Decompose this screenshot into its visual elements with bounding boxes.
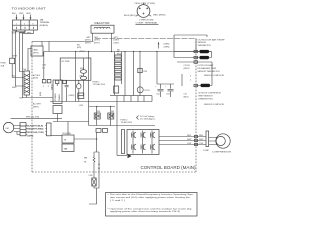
transistor Q4	[132, 144, 137, 150]
svg-text:(GRY): (GRY)	[114, 40, 120, 42]
svg-text:GRY: GRY	[86, 37, 91, 39]
svg-text:SENSOR THERMISTOR: SENSOR THERMISTOR	[198, 71, 221, 73]
svg-text:AC BLK: AC BLK	[33, 74, 41, 77]
svg-text:(GRY): (GRY)	[94, 43, 100, 45]
notes box	[106, 193, 198, 217]
svg-text:DC 310V Approx.: DC 310V Approx.	[140, 118, 156, 121]
pin bottom	[143, 13, 145, 15]
wires connector to board	[26, 126, 47, 135]
svg-text:WHT: WHT	[12, 87, 17, 89]
svg-text:(GRN): (GRN)	[27, 135, 33, 137]
transistor Q3	[151, 132, 156, 138]
wire choke to board	[27, 97, 53, 99]
wire rail y125	[89, 125, 155, 127]
resistor R23	[138, 68, 142, 72]
wire TR feed	[67, 122, 69, 136]
TR box 1	[62, 135, 74, 143]
svg-text:EXCHANGER TEMP: EXCHANGER TEMP	[198, 67, 217, 70]
svg-text:COMP. TERMINAL: COMP. TERMINAL	[136, 22, 159, 25]
svg-text:YLW: YLW	[187, 143, 191, 145]
wire reactor left leg	[92, 33, 94, 41]
svg-text:TAB: TAB	[40, 19, 44, 22]
coil winding ladder	[115, 52, 122, 96]
wire cn2 drop	[43, 52, 45, 80]
svg-text:WHT: WHT	[187, 139, 192, 141]
svg-text:RED: RED	[199, 135, 204, 137]
svg-text:TAB: TAB	[64, 147, 68, 150]
oval component relay coil	[78, 80, 80, 101]
choke coil L1 hatched	[24, 71, 30, 95]
wire output U	[159, 136, 206, 138]
capacitor C53	[165, 84, 174, 97]
svg-text:T6.3A L250V: T6.3A L250V	[121, 121, 133, 124]
wire top right corner	[195, 39, 197, 52]
fan connector housing	[20, 123, 26, 136]
pin left	[139, 7, 141, 9]
svg-text:DATA: DATA	[33, 49, 39, 52]
wire L from terminal 1	[12, 30, 16, 58]
svg-text:TEMP SENSOR: TEMP SENSOR	[198, 95, 213, 97]
varistor branch 2	[98, 152, 100, 186]
svg-text:WHT/YLW (YLW): WHT/YLW (YLW)	[27, 132, 44, 134]
svg-text:RED (RED): RED (RED)	[153, 15, 166, 17]
sensor A loop top wire	[174, 35, 207, 37]
svg-text:COMPRESSOR: COMPRESSOR	[212, 151, 232, 153]
wire long vertical B	[88, 52, 90, 126]
wire join varistors	[89, 186, 99, 205]
compressor motor M	[216, 134, 230, 148]
wire output W	[159, 144, 206, 146]
wire fan return	[51, 135, 62, 137]
control board dashed outline left	[31, 42, 33, 173]
wire TR out	[74, 138, 97, 140]
wire arrow 2	[23, 15, 25, 20]
compressor terminal bar	[206, 131, 209, 147]
svg-text:(RD): (RD)	[77, 47, 82, 49]
TR box 2	[62, 144, 74, 152]
fuse F main	[10, 58, 15, 64]
connector tick A2	[194, 56, 198, 58]
svg-text:GRY: GRY	[94, 37, 99, 39]
thermistor blob A2	[200, 56, 210, 59]
connector tick A1	[194, 50, 198, 52]
resistor under coil	[114, 86, 119, 93]
wire output V	[159, 140, 206, 142]
svg-text:AC WHT: AC WHT	[33, 103, 42, 106]
wire rail top	[32, 41, 94, 43]
fan motor FM	[3, 122, 13, 132]
fuse F1 oval	[80, 70, 86, 74]
svg-text:• The unit due to the Rated Fr: • The unit due to the Rated Frequency In…	[108, 193, 195, 196]
svg-text:(GRY): (GRY)	[85, 43, 91, 45]
svg-text:TO INDOOR UNIT: TO INDOOR UNIT	[12, 6, 46, 10]
relay unit box	[60, 58, 91, 80]
transistor Q6	[151, 144, 156, 150]
terminal block TB indoor	[13, 20, 38, 30]
svg-text:(GRN): (GRN)	[164, 46, 170, 48]
connector pins left	[42, 80, 46, 83]
connector tick B2	[194, 84, 198, 86]
wire N from terminal 2	[15, 30, 25, 86]
control board dashed outline bottom	[32, 171, 196, 173]
fan board connector CN	[47, 123, 52, 136]
svg-text:(GRN): (GRN)	[164, 43, 170, 45]
svg-text:(GRY): (GRY)	[114, 43, 120, 45]
svg-text:RC23: RC23	[145, 90, 151, 92]
wire rail mid	[44, 51, 212, 53]
svg-text:(RD): (RD)	[80, 75, 85, 77]
svg-text:RED: RED	[187, 135, 192, 137]
capacitor C1 marks	[65, 80, 69, 101]
control board dashed outline right	[195, 39, 197, 173]
capacitor C52	[155, 84, 164, 97]
small boxes under bridge	[96, 129, 101, 133]
svg-text:RED/WHT (RED): RED/WHT (RED)	[27, 129, 43, 131]
wires fan to connector	[14, 126, 20, 135]
svg-text:(WHT): (WHT)	[33, 53, 39, 55]
wire arrow 3	[30, 15, 32, 20]
diode bridge DB	[89, 106, 115, 126]
wire rail y95	[110, 95, 152, 97]
svg-text:YLW: YLW	[19, 98, 23, 100]
svg-text:BLK: BLK	[12, 13, 16, 15]
wire from terminal 3	[22, 30, 33, 98]
wire reactor right leg	[111, 33, 113, 51]
wire stub rail drop	[48, 42, 50, 52]
connector pins mid	[56, 80, 59, 83]
svg-text:OUTDOOR COMPRESSOR: OUTDOOR COMPRESSOR	[198, 93, 221, 95]
wire sensor stub	[181, 74, 183, 86]
wire arrow 1	[16, 15, 18, 20]
svg-text:DC Link Voltage: DC Link Voltage	[140, 115, 155, 118]
sensor B top wire	[177, 61, 212, 63]
svg-text:SENSOR: SENSOR	[198, 42, 207, 44]
svg-text:NM: NM	[84, 158, 87, 160]
svg-text:( 1 and 2 ): ( 1 and 2 )	[110, 200, 126, 202]
sensor A wire 2	[174, 52, 212, 58]
reactor coil	[94, 27, 110, 29]
svg-text:(GRN): (GRN)	[69, 95, 75, 97]
svg-text:(BOARD): (BOARD)	[40, 24, 49, 27]
svg-text:BLK: BLK	[12, 76, 16, 78]
wire bottom rail	[117, 155, 127, 157]
control board dashed outline top right	[95, 38, 196, 40]
wire rail y121	[53, 121, 89, 123]
component box small	[78, 93, 84, 99]
svg-text:(RD) 1: (RD) 1	[80, 51, 87, 53]
svg-text:BLK: BLK	[13, 32, 17, 34]
wire vertical x133	[133, 52, 135, 96]
relay coil RC23 circle	[137, 87, 143, 93]
svg-text:CONTROL BOARD (MAIN): CONTROL BOARD (MAIN)	[141, 165, 196, 170]
svg-text:(GRY): (GRY)	[94, 40, 100, 42]
svg-text:(THERMISTOR): (THERMISTOR)	[198, 98, 213, 100]
wire pin leads	[136, 3, 151, 16]
transistor Q2	[141, 132, 146, 138]
svg-text:applying power after short-cir: applying power after short-circuiting te…	[110, 210, 180, 213]
comp terminal circle	[137, 5, 150, 18]
wire caps top rail	[157, 83, 174, 85]
reactor L box	[91, 25, 114, 33]
wire vertical x125	[124, 52, 126, 96]
wire choke out	[26, 95, 28, 98]
wire from fuse down	[12, 64, 24, 78]
svg-text:• Operation of the compressor: • Operation of the compressor and the ou…	[108, 207, 192, 210]
svg-text:(RD): (RD)	[117, 54, 122, 56]
svg-text:WHT OG (OR): WHT OG (OR)	[26, 117, 39, 119]
wire rail y101	[50, 101, 152, 103]
svg-text:POWER: POWER	[55, 93, 57, 101]
wire grn arrow	[158, 43, 160, 49]
wire vertical x140	[139, 52, 141, 96]
wires bar to compressor	[209, 138, 217, 145]
svg-text:(WHT): (WHT)	[184, 68, 190, 70]
wire under relay box	[57, 114, 59, 122]
sensor B bottom wire	[195, 62, 212, 86]
svg-text:FM: FM	[6, 128, 9, 130]
svg-text:(BLK): (BLK)	[33, 78, 38, 80]
relay box small	[53, 106, 62, 114]
connector ticks outputs	[195, 135, 198, 137]
svg-text:(THROUGH): (THROUGH)	[140, 19, 154, 21]
module internal junction dots	[133, 132, 134, 133]
thermistor blob A1	[200, 50, 210, 53]
svg-text:OUTDOOR AIR TEMP: OUTDOOR AIR TEMP	[198, 38, 226, 41]
svg-text:RY PWB: RY PWB	[62, 61, 70, 63]
wire module left vertical	[116, 96, 118, 156]
svg-text:CN TH: CN TH	[184, 65, 191, 67]
junction dots rail	[75, 51, 76, 52]
wire caps feed	[156, 52, 158, 85]
transistor Q1	[132, 132, 137, 138]
svg-text:T3.15A L250V: T3.15A L250V	[93, 83, 106, 86]
svg-text:(GRY): (GRY)	[85, 40, 91, 42]
svg-text:tem connected (0-0) after appl: tem connected (0-0) after applying power…	[110, 196, 191, 199]
svg-text:(RD): (RD)	[40, 91, 42, 96]
svg-text:(BLK): (BLK)	[184, 96, 189, 98]
svg-text:SENSOR COMPLETE: SENSOR COMPLETE	[204, 104, 225, 106]
wire varistor anchor	[94, 132, 99, 152]
svg-text:SENSOR COMPLETE: SENSOR COMPLETE	[204, 75, 225, 77]
svg-text:FUSE: FUSE	[1, 63, 7, 65]
wire data branch	[28, 49, 31, 72]
thermistor blob B	[201, 84, 211, 87]
svg-text:TB (GRN): TB (GRN)	[62, 133, 71, 135]
arrow marker	[128, 154, 132, 158]
wire N2 from terminal 2	[19, 30, 25, 72]
svg-text:REACTOR: REACTOR	[95, 21, 110, 25]
svg-text:BLK/WHT (BLK): BLK/WHT (BLK)	[27, 125, 43, 127]
ladder verticals	[124, 96, 152, 102]
connector CN data	[31, 46, 43, 56]
fuse F2 oval	[80, 76, 86, 80]
resistor bar left of module	[122, 130, 125, 154]
svg-text:YLW: YLW	[199, 143, 203, 145]
inverter power module PM	[127, 130, 159, 155]
svg-text:(WHT): (WHT)	[33, 107, 39, 109]
varistor branch 1	[93, 152, 95, 157]
svg-text:TRANS: TRANS	[58, 94, 61, 101]
svg-text:FUSE 1: FUSE 1	[93, 81, 101, 83]
wire fan feed	[11, 118, 62, 120]
svg-text:COMP: COMP	[203, 150, 210, 152]
pin right	[146, 7, 148, 9]
svg-text:FUSE 2: FUSE 2	[121, 119, 129, 121]
transistor Q5	[141, 144, 146, 150]
module internal buses	[133, 131, 152, 154]
connector tick B1	[194, 61, 198, 63]
wire long vertical A	[75, 52, 77, 102]
svg-text:BLUE (BLU): BLUE (BLU)	[124, 15, 136, 17]
svg-text:TERMINAL: TERMINAL	[40, 21, 51, 24]
wire stub data box	[41, 42, 43, 47]
svg-text:THERMISTOR: THERMISTOR	[198, 45, 212, 47]
transformer T box	[53, 80, 62, 104]
sensor A left vertical	[173, 35, 175, 58]
svg-text:(RD): (RD)	[80, 68, 85, 70]
svg-text:GRY: GRY	[114, 37, 119, 39]
sensor A wire 1	[174, 51, 212, 53]
svg-text:WHT: WHT	[199, 139, 204, 141]
